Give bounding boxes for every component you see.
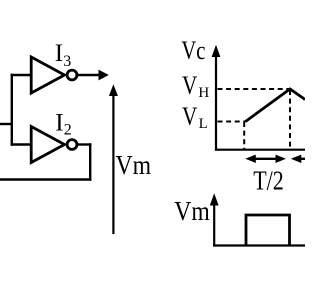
svg-text:L: L [199,116,208,132]
wire I2 input [11,143,32,145]
dimension arrow T/2 (double-headed) [250,158,281,160]
waveform Vm pulse [246,215,290,246]
dashed line VL level [218,121,246,123]
axis Vm baseline [213,244,305,246]
wire I3 output [78,74,100,76]
dashed vertical at t2 [289,90,291,149]
axis Vc vertical with arrow [215,55,217,151]
waveform Vc ramp [246,89,306,122]
svg-text:V: V [182,71,197,100]
inverter I2 [31,127,64,163]
wire feedback bottom [0,178,91,180]
bubble I2 output [67,140,77,150]
wire I2 output right [78,143,92,145]
bubble I3 output [67,70,77,80]
svg-text:Vm: Vm [116,150,152,180]
svg-text:3: 3 [63,53,71,70]
dashed line VH level [218,88,291,90]
arrowhead I3 output [99,70,109,81]
node Vm vertical arrow [112,93,114,234]
svg-text:Vc: Vc [181,36,205,65]
svg-text:I: I [55,110,63,137]
axis Vc horizontal [215,149,305,151]
svg-text:T/2: T/2 [253,165,284,195]
dimension arrow (second half, clipped) [295,158,305,160]
wire vertical input bus [11,74,13,146]
svg-text:V: V [182,102,197,131]
axis Vm vertical with arrow [213,203,215,247]
svg-text:Vm: Vm [174,196,210,226]
wire I3 input [11,74,32,76]
wire input from left edge [0,123,12,125]
svg-text:2: 2 [64,122,72,139]
dashed vertical at t1 [243,122,245,149]
inverter I3 [31,57,64,93]
svg-text:H: H [198,85,209,101]
svg-text:I: I [55,40,63,67]
wire I2 output down [89,143,91,180]
